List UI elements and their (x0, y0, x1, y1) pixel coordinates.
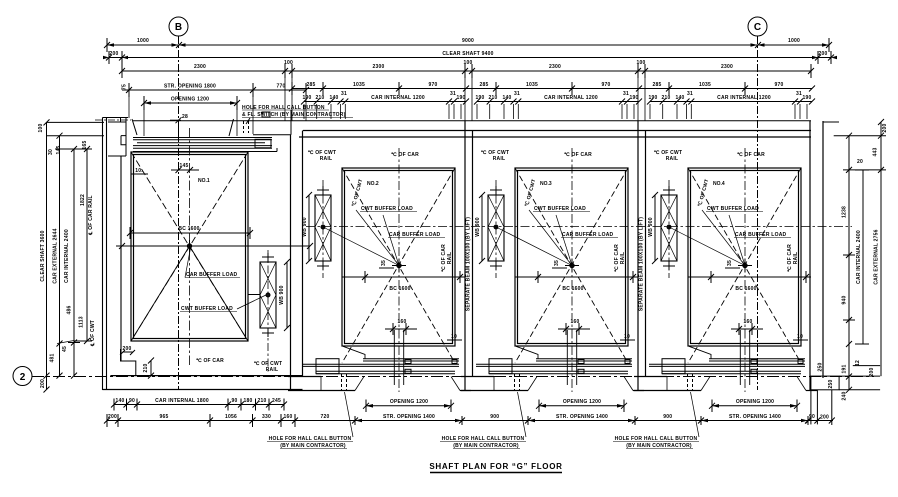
dim row 5 shaft1: OPENING 1200 (141, 96, 240, 110)
svg-text:OPENING 1200: OPENING 1200 (171, 97, 209, 103)
dim 210 vertical (shaft1 bottom) (143, 358, 154, 379)
svg-text:210: 210 (315, 95, 324, 101)
svg-text:900: 900 (663, 414, 672, 420)
svg-text:330: 330 (262, 414, 271, 420)
divider wall D2 (465, 121, 473, 390)
svg-text:12: 12 (855, 360, 861, 366)
svg-text:℃ OF CAR: ℃ OF CAR (196, 357, 224, 364)
svg-text:CLEAR SHAFT 3600: CLEAR SHAFT 3600 (40, 230, 46, 281)
svg-text:C: C (754, 22, 761, 33)
svg-text:210: 210 (257, 398, 266, 404)
svg-text:100: 100 (284, 60, 293, 66)
cwt1 centerline (267, 250, 269, 374)
shaft1 bottom-left step (121, 349, 136, 376)
grid line C (757, 36, 759, 390)
svg-text:191: 191 (842, 364, 848, 373)
svg-text:145: 145 (56, 145, 62, 154)
svg-text:30: 30 (48, 149, 54, 155)
svg-text:CAR INTERNAL 1200: CAR INTERNAL 1200 (717, 95, 771, 101)
svg-text:940: 940 (842, 295, 848, 304)
svg-text:250: 250 (828, 379, 834, 388)
dim 200 (shaft1 bottom left) (120, 346, 135, 355)
svg-text:140: 140 (115, 398, 124, 404)
svg-text:90: 90 (809, 414, 815, 420)
svg-text:B: B (175, 22, 182, 33)
svg-text:1000: 1000 (788, 38, 800, 44)
svg-text:100: 100 (636, 60, 645, 66)
svg-text:CWT BUFFER LOAD: CWT BUFFER LOAD (181, 306, 233, 312)
svg-text:10.: 10. (135, 168, 143, 174)
title (429, 462, 562, 473)
grid bubble 2 (13, 367, 32, 386)
svg-text:160: 160 (283, 414, 292, 420)
svg-text:210: 210 (488, 95, 497, 101)
svg-text:210: 210 (661, 95, 670, 101)
shaft1 top wall & lobby (95, 112, 270, 156)
label CWT BUFFER LOAD (shaft1) (180, 295, 266, 312)
svg-text:486: 486 (67, 305, 73, 314)
svg-text:31: 31 (450, 91, 456, 97)
label CAR BUFFER LOAD (shaft1) (185, 248, 240, 278)
svg-text:285: 285 (479, 82, 488, 88)
dim 10 (shaft1 top left) (131, 168, 148, 174)
svg-text:1113: 1113 (79, 316, 85, 327)
svg-text:285: 285 (652, 82, 661, 88)
svg-text:BC 1600: BC 1600 (178, 226, 199, 232)
svg-text:140: 140 (329, 95, 338, 101)
grid line B (178, 36, 180, 390)
svg-text:190: 190 (475, 95, 484, 101)
svg-text:WB 900: WB 900 (279, 285, 285, 304)
car NO.1 center buffer (183, 240, 196, 252)
grid bubble B (169, 17, 188, 36)
svg-text:SHAFT PLAN FOR “G” FLOOR: SHAFT PLAN FOR “G” FLOOR (429, 462, 562, 471)
svg-text:& FL. SWITCH (BY MAIN CONTRACT: & FL. SWITCH (BY MAIN CONTRACTOR) (242, 112, 346, 118)
svg-text:190: 190 (802, 95, 811, 101)
svg-text:190: 190 (456, 95, 465, 101)
right bottom step (811, 360, 880, 425)
car NO.1 (131, 152, 248, 341)
svg-text:165: 165 (82, 140, 88, 149)
shaft1 mid horizontal dim line (116, 243, 313, 249)
svg-text:75: 75 (122, 84, 128, 90)
svg-text:140: 140 (675, 95, 684, 101)
svg-text:443: 443 (873, 147, 879, 156)
dim extension lines (top rows to wall) (129, 78, 807, 136)
svg-text:250: 250 (818, 362, 824, 371)
svg-text:90: 90 (129, 398, 135, 404)
svg-text:2: 2 (20, 372, 26, 383)
svg-text:STR. OPENING 1800: STR. OPENING 1800 (164, 84, 216, 90)
dim row 3: 2300/100 chain (119, 60, 814, 78)
svg-text:CAR INTERNAL 2400: CAR INTERNAL 2400 (64, 229, 70, 283)
svg-text:100: 100 (463, 60, 472, 66)
svg-text:℃ OF CWT: ℃ OF CWT (254, 360, 282, 367)
dim 28 (shaft1 top) (170, 114, 188, 138)
dim rows 4-5 for bays (289, 82, 815, 95)
dim BC 1600 (shaft1) (127, 226, 253, 239)
grid line 2 (32, 376, 874, 378)
svg-text:720: 720 (320, 414, 329, 420)
svg-text:CAR INTERNAL 1200: CAR INTERNAL 1200 (544, 95, 598, 101)
shaft1 door sill assembly (top) (133, 138, 277, 152)
svg-text:190: 190 (302, 95, 311, 101)
svg-text:200: 200 (882, 123, 888, 132)
svg-text:℄ OF CWT: ℄ OF CWT (89, 320, 96, 347)
shaft1 left outer wall (103, 118, 122, 391)
svg-text:90: 90 (231, 398, 237, 404)
svg-text:1000: 1000 (137, 38, 149, 44)
bay2 (292, 88, 466, 90)
svg-text:140: 140 (502, 95, 511, 101)
bottom dim row A (shaft1): 140/90/CAR INTERNAL 1800/... (111, 398, 287, 411)
svg-text:CAR EXTERNAL 2756: CAR EXTERNAL 2756 (874, 229, 880, 284)
svg-text:CAR BUFFER LOAD: CAR BUFFER LOAD (186, 272, 238, 278)
svg-text:1238: 1238 (842, 206, 848, 218)
svg-text:28: 28 (182, 114, 188, 120)
shaft1 right top jog (253, 110, 291, 135)
svg-text:20: 20 (857, 159, 863, 165)
dim 145 (shaft1 top) (171, 163, 199, 173)
svg-text:1035: 1035 (526, 82, 538, 88)
left dim column (38, 119, 104, 392)
svg-text:210: 210 (143, 363, 149, 372)
svg-text:1035: 1035 (353, 82, 365, 88)
svg-text:1035: 1035 (699, 82, 711, 88)
svg-text:2300: 2300 (194, 64, 206, 70)
svg-text:31: 31 (341, 91, 347, 97)
svg-text:NO.2: NO.2 (367, 181, 379, 187)
bottom dim row B (shaft1 part) (104, 414, 330, 427)
rail centerline horizontal (bays) (306, 226, 852, 228)
svg-text:180: 180 (243, 398, 252, 404)
dim row 1: 1000 / 9000 / 1000 (104, 38, 832, 52)
svg-text:970: 970 (774, 82, 783, 88)
svg-text:CAR INTERNAL 2400: CAR INTERNAL 2400 (856, 230, 862, 284)
svg-text:970: 970 (428, 82, 437, 88)
svg-text:900: 900 (490, 414, 499, 420)
divider wall D3 (638, 121, 646, 390)
svg-text:200: 200 (818, 51, 827, 57)
svg-text:NO.4: NO.4 (713, 181, 725, 187)
svg-text:SEPARATE BEAM 100X100 (BY LIFT: SEPARATE BEAM 100X100 (BY LIFT) (466, 217, 472, 311)
shaft1 bottom wall (103, 376, 303, 390)
svg-text:NO.3: NO.3 (540, 181, 552, 187)
svg-text:285: 285 (306, 82, 315, 88)
divider wall D1 (291, 131, 303, 391)
svg-text:200: 200 (109, 51, 118, 57)
svg-text:481: 481 (50, 353, 56, 362)
svg-text:1822: 1822 (80, 194, 86, 206)
svg-text:770: 770 (276, 84, 285, 90)
svg-text:RAIL: RAIL (266, 367, 279, 373)
row5 car internal 1200 chains (304, 101, 466, 103)
svg-text:SEPARATE BEAM 100X100 (BY LIFT: SEPARATE BEAM 100X100 (BY LIFT) (639, 217, 645, 311)
svg-text:200: 200 (869, 367, 875, 376)
svg-text:CAR INTERNAL 1800: CAR INTERNAL 1800 (155, 398, 209, 404)
svg-text:31: 31 (623, 91, 629, 97)
svg-text:9000: 9000 (462, 38, 474, 44)
svg-text:240: 240 (842, 391, 848, 400)
bottom dim row B right end (806, 414, 835, 424)
svg-text:190: 190 (629, 95, 638, 101)
svg-text:45: 45 (62, 346, 68, 352)
svg-text:245: 245 (272, 398, 281, 404)
svg-text:1056: 1056 (225, 414, 237, 420)
svg-text:CLEAR SHAFT 9400: CLEAR SHAFT 9400 (442, 51, 493, 57)
dim row 4 shaft1: 75 / STR. OPENING 1800 / 770 (122, 83, 310, 97)
grid bubble C (748, 17, 767, 36)
svg-text:CAR EXTERNAL 2644: CAR EXTERNAL 2644 (53, 228, 59, 283)
hall button hole shaft1 (dashed) (244, 121, 249, 133)
svg-text:31: 31 (687, 91, 693, 97)
car NO.1 centerlines (122, 128, 268, 365)
car NO.1 diagonals (131, 152, 248, 341)
svg-text:CAR INTERNAL 1200: CAR INTERNAL 1200 (371, 95, 425, 101)
label C of CWT RAIL (shaft1) (254, 360, 282, 373)
svg-text:200: 200 (108, 414, 117, 420)
svg-text:2300: 2300 (549, 64, 561, 70)
right dim columns (823, 119, 888, 401)
counterweight CWT shaft1 (260, 253, 276, 337)
svg-text:965: 965 (159, 414, 168, 420)
note: hole for hall call button + fl switch (shaft1 top) (242, 105, 353, 124)
svg-text:100: 100 (38, 123, 44, 132)
top wall main run (133, 121, 811, 137)
svg-text:31: 31 (514, 91, 520, 97)
svg-text:200: 200 (820, 415, 829, 421)
svg-text:31: 31 (796, 91, 802, 97)
right outer wall (810, 121, 823, 390)
svg-text:2300: 2300 (721, 64, 733, 70)
svg-text:℄ OF CAR RAIL: ℄ OF CAR RAIL (87, 195, 94, 236)
svg-text:200: 200 (40, 379, 46, 388)
dim WB 900 (shaft1 cwt) (248, 259, 290, 331)
dim row 2: CLEAR SHAFT 9400 (103, 51, 837, 64)
svg-text:2300: 2300 (372, 64, 384, 70)
svg-text:NO.1: NO.1 (198, 178, 210, 184)
svg-text:970: 970 (601, 82, 610, 88)
svg-text:190: 190 (648, 95, 657, 101)
